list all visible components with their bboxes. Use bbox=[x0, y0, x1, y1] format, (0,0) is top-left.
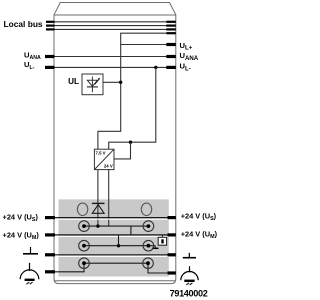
wire converter bottom right pin down bbox=[108, 170, 110, 227]
rail FE bbox=[50, 254, 170, 256]
wire local bus line 1 bbox=[50, 21, 170, 23]
rail +24V UM bbox=[50, 234, 170, 236]
+24V UM left bar bbox=[45, 233, 55, 236]
FE left bar bbox=[45, 253, 55, 256]
+24V US right bar bbox=[168, 216, 176, 219]
wire local bus line 3 bbox=[50, 28, 170, 30]
wire UL- line bbox=[50, 66, 170, 68]
node junction UL- drop bbox=[154, 66, 157, 69]
DC/DC converter T1 7.5V/24V bbox=[94, 149, 114, 169]
UL- right bar bbox=[166, 66, 176, 69]
fuse box F1 bbox=[158, 235, 166, 245]
terminal row 1 empty circle left bbox=[77, 203, 87, 215]
wire terminal row 3 bbox=[84, 245, 155, 247]
shield earth symbol left bbox=[20, 263, 39, 284]
UANA left bar bbox=[45, 55, 55, 58]
UL- left bar bbox=[45, 66, 55, 69]
terminal point row2 left bbox=[79, 221, 90, 232]
wire terminal row 2 bbox=[84, 225, 148, 227]
shield left bar bbox=[45, 270, 55, 273]
terminal point row3 right bbox=[143, 240, 154, 251]
module inner top line bbox=[54, 14, 176, 16]
wire LED box to UL+ vertical bbox=[103, 81, 121, 83]
svg-text:Local bus: Local bus bbox=[4, 19, 43, 29]
+24V US left bar bbox=[45, 216, 55, 219]
wire junction down to converter right pin bbox=[114, 142, 131, 159]
svg-text:79140002: 79140002 bbox=[170, 288, 208, 298]
module inner bottom line bbox=[54, 280, 176, 282]
ground symbol left bbox=[23, 247, 38, 254]
wire local bus line 2 bbox=[50, 25, 170, 27]
UL+ right bar bbox=[166, 43, 176, 46]
LED indicator box U1 bbox=[82, 74, 103, 95]
terminal row 1 empty circle right bbox=[141, 203, 151, 215]
wire UANA line bbox=[50, 56, 170, 58]
ground mini symbol at row3 bbox=[152, 246, 159, 249]
wire row2 drop to UM rail bbox=[130, 226, 132, 235]
terminal area gray background bbox=[59, 199, 169, 276]
svg-text:UL: UL bbox=[68, 77, 79, 86]
FE right bar bbox=[168, 253, 176, 256]
module outline bbox=[54, 3, 176, 284]
node junction LED wire bbox=[119, 81, 122, 84]
ground symbol right bbox=[183, 253, 196, 258]
svg-text:7,5 V: 7,5 V bbox=[96, 150, 106, 155]
terminal point row3 left bbox=[79, 240, 90, 251]
node junction diode wire row2 bbox=[96, 224, 99, 227]
wire UL- drop to converter top right pin bbox=[109, 67, 156, 149]
terminal point row4 left bbox=[79, 258, 90, 269]
wire converter bottom left pin down bbox=[97, 170, 99, 227]
wire terminal row 4 shield bbox=[50, 263, 168, 273]
svg-text:24 V: 24 V bbox=[104, 164, 113, 169]
wire UL+ tap from bus bar 4 down to converter feed bbox=[98, 33, 166, 149]
wire UL+ branch to right terminal bbox=[121, 44, 167, 46]
terminal point row4 right bbox=[143, 258, 154, 269]
local bus left connector bars bbox=[46, 21, 55, 31]
node junction at 130.5,142.2 bbox=[129, 141, 132, 144]
node junction row3 to UM rail bbox=[117, 244, 120, 247]
white separation under rails bbox=[59, 219, 169, 256]
UANA right bar bbox=[166, 55, 176, 58]
+24V UM right bar bbox=[168, 233, 176, 236]
shield earth symbol right bbox=[181, 266, 198, 285]
wire row3 up to UM rail bbox=[118, 235, 120, 246]
diode D1 bbox=[92, 203, 105, 213]
local bus right connector bars bbox=[166, 21, 176, 35]
rail +24V US bbox=[50, 217, 170, 219]
shield right bar bbox=[168, 271, 176, 274]
terminal point row2 right bbox=[143, 221, 154, 232]
